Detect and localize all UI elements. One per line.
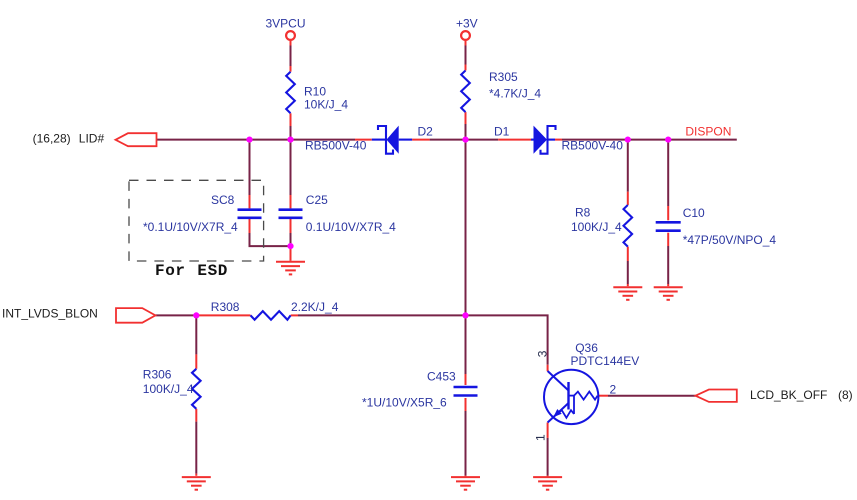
svg-text:R8: R8	[575, 206, 591, 220]
svg-text:2: 2	[610, 382, 617, 396]
svg-text:R306: R306	[143, 367, 172, 381]
svg-text:3VPCU: 3VPCU	[266, 16, 306, 30]
svg-text:For ESD: For ESD	[155, 262, 228, 280]
svg-text:3: 3	[535, 350, 549, 357]
svg-text:R305: R305	[489, 70, 518, 84]
svg-text:*0.1U/10V/X7R_4: *0.1U/10V/X7R_4	[143, 220, 238, 234]
svg-text:RB500V-40: RB500V-40	[562, 138, 624, 152]
svg-text:C453: C453	[427, 369, 456, 383]
svg-text:C10: C10	[683, 206, 705, 220]
svg-text:(16,28): (16,28)	[33, 131, 71, 145]
svg-text:PDTC144EV: PDTC144EV	[571, 354, 640, 368]
svg-text:R308: R308	[211, 300, 240, 314]
svg-text:LCD_BK_OFF: LCD_BK_OFF	[750, 388, 827, 402]
svg-text:+3V: +3V	[456, 16, 478, 30]
svg-text:10K/J_4: 10K/J_4	[304, 97, 348, 111]
svg-text:*4.7K/J_4: *4.7K/J_4	[489, 86, 541, 100]
svg-text:(8): (8)	[838, 388, 853, 402]
svg-text:D1: D1	[494, 124, 510, 138]
svg-text:INT_LVDS_BLON: INT_LVDS_BLON	[2, 306, 98, 320]
svg-text:100K/J_4: 100K/J_4	[143, 382, 194, 396]
svg-text:2.2K/J_4: 2.2K/J_4	[291, 300, 339, 314]
svg-text:*47P/50V/NPO_4: *47P/50V/NPO_4	[683, 233, 777, 247]
svg-text:C25: C25	[306, 193, 328, 207]
svg-text:0.1U/10V/X7R_4: 0.1U/10V/X7R_4	[306, 220, 396, 234]
svg-text:1: 1	[534, 434, 548, 441]
svg-text:SC8: SC8	[211, 193, 235, 207]
svg-text:LID#: LID#	[79, 131, 105, 145]
svg-text:DISPON: DISPON	[685, 125, 731, 139]
svg-text:D2: D2	[418, 124, 434, 138]
svg-text:RB500V-40: RB500V-40	[305, 138, 367, 152]
svg-text:100K/J_4: 100K/J_4	[571, 220, 622, 234]
svg-text:*1U/10V/X5R_6: *1U/10V/X5R_6	[362, 396, 447, 410]
